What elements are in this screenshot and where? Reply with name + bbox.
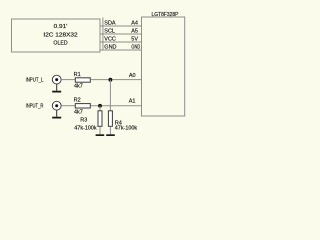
OLED module box [12,19,101,52]
svg-text:A5: A5 [131,28,138,34]
wire junction R down to R3 [99,106,101,111]
svg-text:A1: A1 [129,99,136,105]
svg-text:SCL: SCL [104,28,115,34]
wire R3 to ground [99,127,101,135]
svg-text:INPUT_L: INPUT_L [26,77,44,83]
wire R1 to A0 [91,79,142,81]
svg-text:VCC: VCC [104,36,116,42]
svg-text:R2: R2 [74,98,81,104]
svg-text:5V: 5V [131,36,138,42]
connector table left edge [102,18,104,51]
wire R2 to A1 [91,105,142,107]
connector J1 INPUT_L [52,75,61,84]
ground J1 [56,84,58,91]
MCU U1 LGT8F328P box [142,17,185,116]
ground R3 [96,134,105,136]
connector J2 INPUT_R [52,101,61,110]
wire junction L down to R4 [109,80,111,111]
resistor R4 [108,111,112,127]
resistor R1 [75,78,90,82]
junction node L [108,78,112,82]
svg-text:47k-100k: 47k-100k [74,125,97,131]
junction node R [98,104,102,108]
svg-text:GND: GND [131,44,140,50]
svg-text:47k-100k: 47k-100k [115,126,138,132]
svg-text:I2C 128X32: I2C 128X32 [43,33,77,39]
wire R4 to ground [109,127,111,135]
svg-text:4k7: 4k7 [74,109,83,115]
svg-text:A4: A4 [131,20,138,26]
svg-text:GND: GND [104,44,116,50]
ground R4 [106,134,115,136]
svg-text:A0: A0 [129,73,136,79]
wire J1 to R1 [61,79,75,81]
svg-text:4k7: 4k7 [74,84,83,90]
svg-text:OLED: OLED [53,41,67,47]
svg-text:R3: R3 [80,118,87,124]
svg-text:R1: R1 [74,72,81,78]
svg-text:LGT8F328P: LGT8F328P [152,12,179,18]
connector table row lines [100,26,142,50]
resistor R3 [98,111,102,127]
ground J2 [56,110,58,117]
svg-text:0.91': 0.91' [54,24,68,30]
svg-text:INPUT_R: INPUT_R [26,104,44,110]
svg-text:SDA: SDA [104,20,116,26]
wire J2 to R2 [61,105,75,107]
resistor R2 [75,104,90,108]
